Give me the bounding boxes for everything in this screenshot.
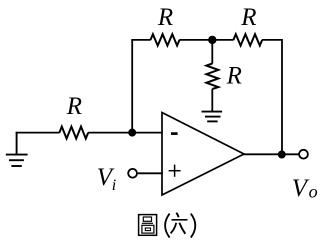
node A (inverting input junction) [128, 129, 136, 137]
svg-text:i: i [112, 177, 116, 194]
resistor R1 (top-left feedback) [151, 34, 180, 45]
svg-text:R: R [226, 62, 242, 89]
caption glyph 圖 [139, 215, 157, 236]
terminal Vo (open circle) [299, 150, 308, 159]
resistor R2 (top-right feedback) [233, 34, 262, 45]
node C (output junction) [278, 151, 286, 159]
wire top-right corner down to output node [262, 40, 282, 154]
op-amp non-inverting pin mark + [169, 165, 181, 177]
svg-text:R: R [66, 93, 82, 120]
caption close paren [191, 214, 196, 238]
wire input-left [16, 132, 60, 134]
op-amp inverting pin mark - [171, 132, 178, 135]
wire from R3 to ground [211, 89, 213, 112]
wire from node B down to R3 [211, 40, 213, 64]
svg-text:R: R [240, 4, 256, 31]
ground (R3 ground) [202, 112, 223, 122]
caption glyph 六 [171, 213, 188, 234]
wire between R1 and R2 [179, 39, 233, 41]
ground (left input ground) [6, 132, 28, 166]
terminal Vi (open circle) [128, 169, 137, 178]
wire top-left horizontal [131, 39, 150, 41]
op-amp U1 [162, 113, 244, 196]
wire from Vi terminal to non-inverting input [138, 172, 163, 174]
wire to inverting input [88, 132, 163, 134]
node B (top junction) [208, 36, 216, 44]
svg-text:o: o [309, 182, 318, 202]
caption open paren [165, 214, 170, 238]
resistor R4 (left series input resistor) [59, 127, 88, 139]
resistor R3 (shunt to ground) [206, 64, 218, 90]
wire op-amp output to Vo terminal [244, 153, 299, 155]
wire feedback left vertical [131, 40, 133, 133]
svg-text:R: R [157, 4, 173, 31]
